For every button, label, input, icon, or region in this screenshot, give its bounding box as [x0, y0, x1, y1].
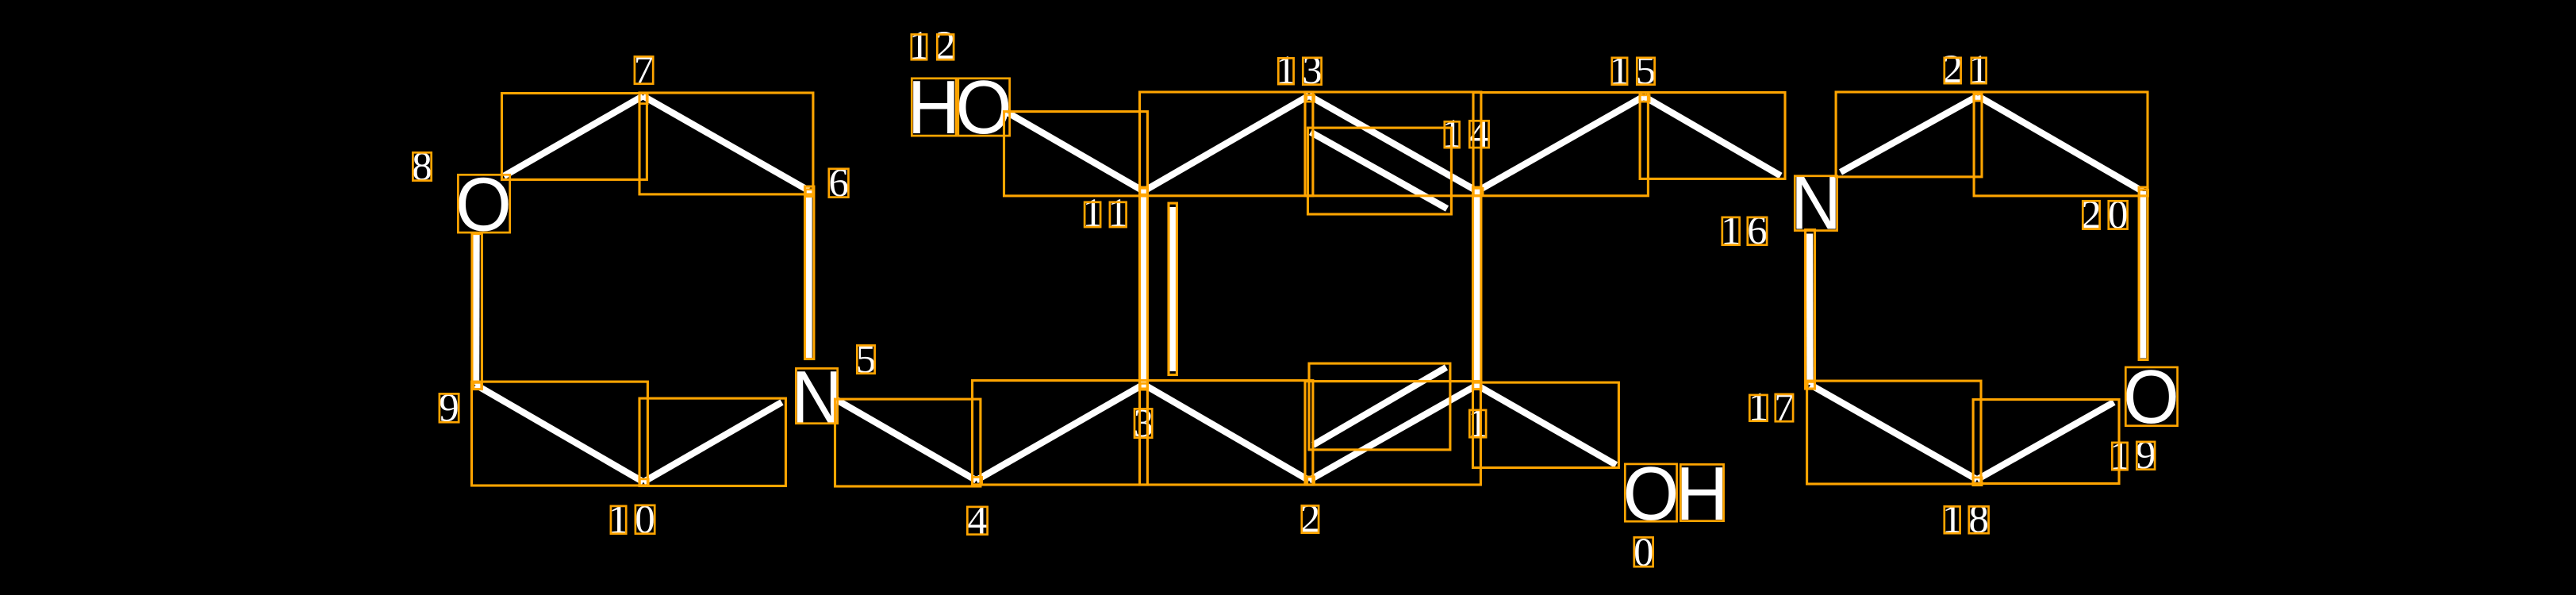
box atom C15: [1640, 95, 1649, 102]
svg-text:7: 7: [1774, 386, 1795, 430]
box bond C14-C15: [1473, 93, 1648, 196]
bond C2-C1 main: [1309, 386, 1477, 481]
index label 17: [1749, 385, 1795, 430]
box atom C11: [1140, 188, 1148, 194]
box atom C4: [972, 477, 981, 484]
box atom C13: [1307, 95, 1315, 102]
box bond N16-C17: [1806, 230, 1815, 389]
index label 5: [856, 337, 877, 382]
index label 16: [1721, 209, 1768, 253]
bond C2-C1 inner: [1313, 367, 1446, 445]
index label 21: [1942, 48, 1989, 92]
bond C7-O8: [504, 96, 643, 176]
index label 18: [1942, 497, 1989, 542]
bond C18-O19: [1977, 402, 2114, 480]
bond C1-C14: [1473, 191, 1480, 386]
box bond C6-N5: [805, 186, 814, 359]
bond C20-O19: [2140, 191, 2146, 359]
svg-text:2: 2: [1942, 48, 1963, 92]
svg-text:5: 5: [856, 337, 877, 382]
svg-text:7: 7: [634, 48, 655, 92]
svg-text:1: 1: [1108, 191, 1129, 236]
svg-text:8: 8: [412, 144, 432, 189]
box bond C21-C20: [1974, 92, 2148, 196]
index label 20: [2081, 193, 2128, 237]
svg-text:1: 1: [1721, 209, 1741, 253]
box atom O19: [2125, 367, 2177, 426]
box atom N5: [796, 368, 837, 423]
bond C14-C13 main: [1309, 96, 1477, 192]
svg-text:3: 3: [1302, 48, 1323, 93]
box atom C3: [1140, 383, 1147, 390]
index label 8: [412, 144, 432, 189]
bond O8-C9: [473, 235, 480, 385]
box bond C17-C18: [1807, 381, 1981, 484]
bond C11-C3 main: [1140, 191, 1146, 385]
box bond C1-C14: [1473, 187, 1481, 389]
index label 10: [608, 497, 655, 542]
box bond C4-C3: [973, 381, 1148, 485]
box bond C1-O0: [1473, 382, 1619, 467]
index label 13: [1276, 48, 1323, 94]
box bond C20-O19: [2139, 187, 2148, 359]
bond C14-C13 inner: [1311, 132, 1447, 209]
svg-text:2: 2: [1300, 497, 1321, 541]
bond C4-C3: [977, 385, 1144, 481]
bond C21-C20: [1978, 96, 2143, 191]
bond C13-C11: [1144, 96, 1310, 192]
svg-text:0: 0: [2108, 193, 2129, 237]
box atom C9: [474, 382, 482, 389]
index label 9: [439, 386, 459, 431]
box bond C13-C11: [1140, 92, 1313, 196]
box atom C17: [1807, 382, 1814, 389]
box atom C1: [1473, 382, 1481, 390]
box atom C20: [2139, 190, 2148, 196]
box bond C9-C10: [472, 382, 648, 486]
index label 6: [828, 161, 849, 205]
svg-text:1: 1: [1749, 385, 1769, 429]
box atom C7: [639, 93, 647, 103]
box bond N16-C21: [1836, 92, 1982, 177]
box atom O of OH0: [1625, 464, 1676, 521]
bond N16-C17: [1806, 234, 1814, 386]
index label 11: [1082, 191, 1128, 236]
index label 12: [909, 24, 956, 68]
index label 4: [967, 498, 988, 543]
svg-text:6: 6: [1747, 209, 1768, 253]
box atom H of HO12: [912, 79, 956, 136]
box bond N5-C4: [835, 399, 981, 486]
svg-text:9: 9: [2136, 433, 2156, 478]
bond C7-C6: [643, 96, 809, 190]
svg-text:1: 1: [1468, 401, 1488, 446]
box bond C18-O19: [1973, 400, 2119, 484]
box bond C11-C3 main: [1140, 187, 1148, 389]
box atom H of OH0: [1680, 464, 1723, 520]
box bond C11-O12: [1004, 112, 1148, 196]
bond C10-N5: [643, 402, 782, 482]
box atom C10: [639, 479, 648, 486]
box bond C11-C3 inner: [1169, 203, 1177, 374]
box atom O8: [458, 175, 509, 232]
index label 2: [1300, 497, 1321, 541]
box bond C2-C1 inner: [1309, 363, 1450, 450]
bond C6-N5: [805, 190, 812, 359]
bond C11-C3 inner: [1169, 207, 1176, 371]
box bond O8-C9: [472, 234, 482, 390]
box bond C14-C13 main: [1305, 92, 1481, 196]
box atom C14: [1473, 188, 1483, 195]
index label 0: [1634, 531, 1654, 575]
box bond C10-N5: [639, 398, 785, 486]
bond C1-O0: [1477, 386, 1617, 466]
bond C9-C10: [476, 385, 644, 482]
svg-text:8: 8: [1968, 497, 1989, 542]
box atom C18: [1973, 478, 1982, 486]
bond C17-C18: [1810, 385, 1977, 480]
bond N16-C21: [1841, 96, 1978, 172]
box bond C2-C1 main: [1305, 382, 1480, 485]
svg-text:2: 2: [935, 24, 956, 68]
bond C15-N16: [1644, 97, 1781, 176]
box atom C21: [1974, 94, 1982, 101]
box bond C7-C6: [639, 93, 813, 194]
index label 7: [634, 48, 655, 92]
index label 15: [1610, 48, 1657, 93]
bond N5-C4: [837, 400, 977, 481]
box bond C7-O8: [502, 94, 647, 180]
bond C11-O12: [1008, 113, 1144, 192]
svg-text:5: 5: [1636, 48, 1657, 93]
box atom C6: [805, 190, 813, 197]
index label 1: [1468, 401, 1488, 446]
box bond C14-C13 inner: [1308, 128, 1452, 214]
svg-text:2: 2: [2081, 193, 2102, 237]
box bond C15-N16: [1640, 93, 1785, 179]
bond C3-C2: [1144, 385, 1310, 481]
box bond C3-C2: [1140, 381, 1313, 485]
box atom N16: [1795, 176, 1837, 231]
index label 14: [1442, 112, 1489, 156]
box atom O of HO12: [958, 79, 1010, 136]
svg-text:4: 4: [967, 498, 988, 543]
box atom C2: [1307, 477, 1315, 485]
index label 3: [1133, 401, 1154, 446]
bond C14-C15: [1477, 97, 1644, 192]
index label 19: [2110, 433, 2156, 478]
